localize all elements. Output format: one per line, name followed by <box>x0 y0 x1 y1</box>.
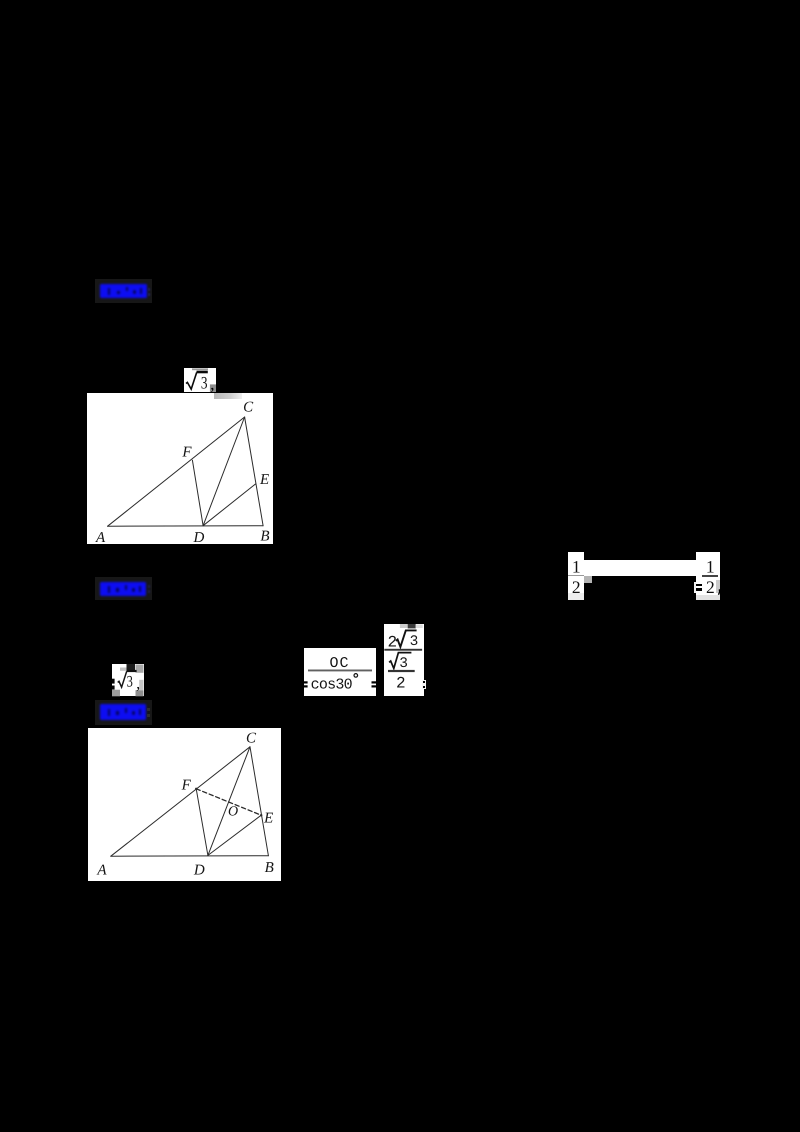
svg-text:1: 1 <box>706 557 715 577</box>
svg-text:,: , <box>210 374 214 392</box>
svg-text:D: D <box>192 529 204 543</box>
svg-text:C: C <box>246 730 257 746</box>
svg-text:1: 1 <box>572 557 581 577</box>
svg-text:F: F <box>181 777 192 793</box>
svg-text:2: 2 <box>706 577 715 597</box>
svg-text:B: B <box>265 860 274 876</box>
svg-text:3: 3 <box>410 634 419 650</box>
svg-text:2: 2 <box>388 633 398 651</box>
svg-text:2: 2 <box>396 675 406 693</box>
svg-text:3: 3 <box>201 372 208 391</box>
svg-text:cos30: cos30 <box>311 677 353 694</box>
svg-text:F: F <box>181 444 192 460</box>
svg-text:2: 2 <box>572 577 581 597</box>
svg-text:3: 3 <box>399 656 408 672</box>
svg-text:B: B <box>260 528 269 543</box>
svg-text:D: D <box>193 862 205 878</box>
svg-text:A: A <box>96 862 107 878</box>
svg-text:A: A <box>95 529 106 543</box>
svg-text:3: 3 <box>127 673 133 690</box>
svg-text:C: C <box>243 399 254 415</box>
svg-text:O: O <box>228 804 238 819</box>
svg-text:E: E <box>259 472 269 488</box>
svg-text:,: , <box>136 676 140 693</box>
svg-text:E: E <box>263 810 273 826</box>
svg-text:OC: OC <box>330 655 349 672</box>
